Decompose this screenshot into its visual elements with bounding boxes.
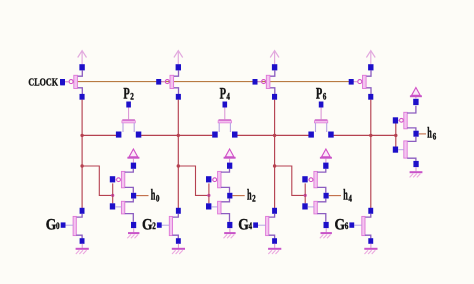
svg-text:P: P bbox=[220, 85, 226, 103]
svg-text:6: 6 bbox=[323, 91, 327, 101]
svg-text:2: 2 bbox=[252, 193, 256, 203]
svg-text:P: P bbox=[316, 85, 322, 103]
svg-text:6: 6 bbox=[433, 131, 437, 141]
svg-text:0: 0 bbox=[156, 193, 160, 203]
svg-text:4: 4 bbox=[226, 91, 230, 101]
svg-text:2: 2 bbox=[152, 221, 156, 231]
svg-text:4: 4 bbox=[348, 193, 352, 203]
svg-text:0: 0 bbox=[56, 221, 60, 231]
svg-text:4: 4 bbox=[249, 221, 253, 231]
svg-text:h: h bbox=[427, 126, 432, 142]
svg-text:P: P bbox=[123, 85, 129, 103]
svg-text:2: 2 bbox=[130, 91, 134, 101]
svg-text:CLOCK: CLOCK bbox=[28, 77, 58, 88]
svg-text:6: 6 bbox=[345, 221, 349, 231]
